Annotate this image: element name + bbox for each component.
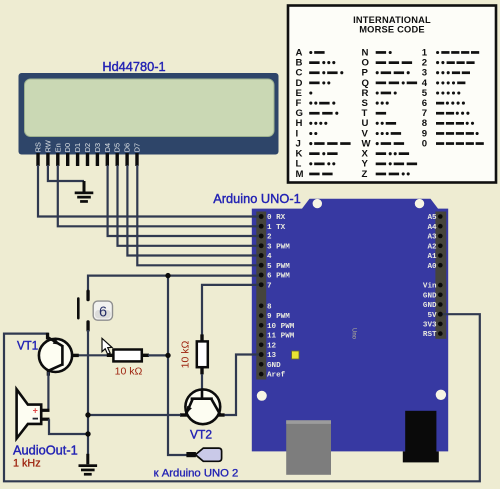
LCD pin En [56,153,59,166]
LCD module Hd44780-1 body [19,73,279,155]
ground symbol at LCD [75,181,94,203]
svg-text:1 TX: 1 TX [267,224,286,232]
svg-text:0 RX: 0 RX [267,214,286,222]
svg-text:1 kHz: 1 kHz [13,458,41,470]
svg-text:M: M [296,169,304,180]
ground symbol bottom [79,454,98,476]
svg-text:+: + [33,405,38,415]
morse column A-M [296,47,351,179]
svg-text:RS: RS [34,142,43,152]
LCD pin D5 [116,153,119,166]
LCD pin D6 [125,153,128,166]
svg-text:5V: 5V [427,312,437,320]
svg-text:A2: A2 [427,243,437,251]
LCD pin D3 [96,153,99,166]
svg-text:Vin: Vin [423,283,437,291]
connector tip (к Arduino UNO 2) [186,452,196,457]
LCD pin RW [46,153,49,166]
resistor R1 10 kOhm body [113,350,141,362]
morse code chart box [288,6,496,183]
LCD pin D7 [135,153,138,166]
Arduino pin13 LED (yellow) [292,351,299,359]
wire Arduino pin 7 to resistor R2 [202,285,260,336]
pushbutton S1 contacts [86,290,89,332]
wire LCD D6 to Arduino pin 4 [127,165,260,256]
wire ground bus to VT2 emitter [88,414,181,416]
key badge 6 [93,301,112,320]
transistor VT2 lead stubs [180,413,225,416]
resistor R2 10 kOhm body (vertical) [197,341,208,367]
svg-text:12: 12 [267,342,277,350]
svg-text:D7: D7 [133,143,142,152]
wire junction to resistor R1 and connector, vertical [168,276,187,455]
wire LCD D7 to Arduino pin 5 [137,165,260,265]
svg-text:5 PWM: 5 PWM [267,263,290,271]
LCD pin RS [36,153,39,166]
wire VT1 collector to speaker + [47,372,49,410]
Arduino left pin header strip [256,212,266,380]
wire pushbutton top to Arduino pin 6 [88,276,260,292]
svg-text:Aref: Aref [267,372,286,380]
wire LCD En to Arduino pin 1 [58,165,260,226]
svg-text:RW: RW [43,140,52,152]
Arduino right pin header strip [435,212,446,339]
wire R2 to VT2 base [201,374,203,390]
wire 5V rail: VT1 emitter around left/bottom to Arduino 5V pin [4,314,480,481]
transistor VT1 body [39,339,72,372]
svg-text:Arduino UNO-1: Arduino UNO-1 [213,191,300,206]
svg-text:13: 13 [267,352,277,360]
node junction ground bus / VT2 emitter wire [85,412,90,417]
svg-text:10 PWM: 10 PWM [267,323,295,331]
transistor VT2 body [185,389,220,424]
node junction pin6-net / vertical [165,273,170,278]
LCD pin D4 [106,153,109,166]
svg-text:8: 8 [267,303,272,311]
wire VT1 base to resistor R1 [73,354,113,356]
svg-text:Z: Z [362,169,368,180]
svg-text:6: 6 [99,304,107,320]
svg-text:RST: RST [423,331,437,339]
svg-text:7: 7 [267,282,272,290]
wire LCD D4 to Arduino pin 2 [108,165,260,236]
wire R1 right lead to junction [148,354,168,356]
svg-text:VT1: VT1 [17,341,38,353]
speaker terminal stubs [41,409,49,421]
svg-text:3V3: 3V3 [423,322,437,330]
svg-text:11 PWM: 11 PWM [267,333,295,341]
speaker AudioOut-1 horn [17,389,42,438]
svg-text:GND: GND [423,302,437,310]
transistor VT2 internal bars and legs [186,390,221,415]
Arduino right pins A5-A0, Vin-RST with labels [423,214,443,339]
Arduino USB connector [286,420,331,475]
Arduino power jack [405,411,436,452]
wire VT2 collector to Arduino pin 13 [225,355,261,416]
mouse cursor [102,338,112,354]
svg-text:A5: A5 [427,214,437,222]
svg-text:D4: D4 [103,143,112,152]
LCD pin D2 [86,153,89,166]
svg-text:D6: D6 [123,143,132,152]
svg-text:D0: D0 [63,143,72,152]
svg-text:2: 2 [267,234,272,242]
svg-text:A0: A0 [427,263,437,271]
svg-text:0: 0 [422,139,427,150]
morse column N-Z [362,47,418,179]
svg-text:4: 4 [267,253,272,261]
wire pushbutton bottom to ground bus [87,330,89,454]
transistor VT1 emitter arrow (PNP) [53,339,60,345]
node junction speaker-minus / ground bus [85,431,90,436]
wire LCD RS to Arduino pin 0 [38,165,260,217]
transistor VT1 internal bars and legs [47,337,62,371]
svg-text:GND: GND [423,292,437,300]
svg-text:10 kΩ: 10 kΩ [180,341,192,369]
svg-text:GND: GND [267,362,281,370]
Arduino left pins 0-7, 8-Aref with labels [259,214,295,380]
svg-text:D1: D1 [73,143,82,152]
Arduino UNO-1 board [252,199,448,452]
svg-text:10 kΩ: 10 kΩ [115,366,143,378]
svg-text:D3: D3 [93,143,102,152]
svg-text:AudioOut-1: AudioOut-1 [13,443,78,458]
svg-text:A1: A1 [427,253,437,261]
svg-text:En: En [53,143,62,152]
svg-text:Uno: Uno [351,328,357,340]
LCD pin D0 [66,153,69,166]
svg-text:VT2: VT2 [190,428,212,442]
svg-text:к Arduino UNO 2: к Arduino UNO 2 [154,468,239,480]
svg-text:MORSE CODE: MORSE CODE [359,24,425,34]
connected pin contact dots (redrawn over wires) [259,214,443,357]
svg-text:9 PWM: 9 PWM [267,313,290,321]
svg-text:D5: D5 [113,143,122,152]
pushbutton S1 actuator bar [77,297,80,319]
resistor R1 lead stubs [107,354,149,357]
connector body (к Arduino UNO 2) [195,448,221,461]
svg-text:6 PWM: 6 PWM [267,273,290,281]
svg-text:A3: A3 [427,234,437,242]
transistor VT1 lead stubs [46,333,79,376]
Arduino mounting holes [257,199,446,401]
morse column 1-0 [422,47,484,149]
svg-text:D2: D2 [83,143,92,152]
LCD pin D1 [76,153,79,166]
transistor VT2 emitter arrow (NPN) [187,406,192,413]
resistor R2 lead stubs [200,334,203,374]
wire LCD RW to ground [48,165,84,181]
wire LCD D5 to Arduino pin 3 [118,165,261,246]
node junction R1 / pin6-net vertical [165,353,170,358]
svg-text:Hd44780-1: Hd44780-1 [102,59,165,74]
svg-text:3 PWM: 3 PWM [267,243,290,251]
wire speaker - to ground bus [49,419,88,434]
svg-text:A4: A4 [427,224,437,232]
LCD screen [25,79,275,137]
